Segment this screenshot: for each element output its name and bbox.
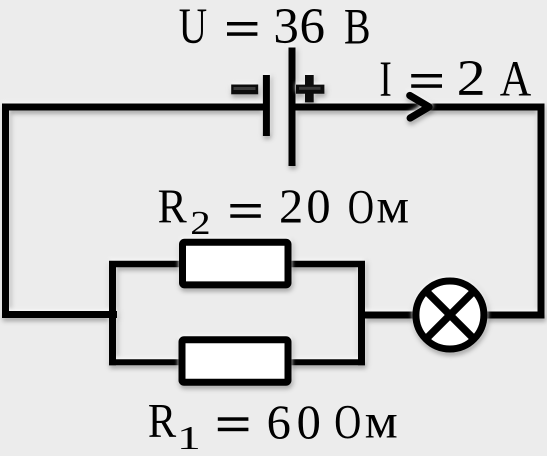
- svg-text:2: 2: [279, 180, 303, 233]
- svg-text:0: 0: [306, 181, 330, 234]
- svg-text:1: 1: [177, 418, 201, 456]
- svg-text:О: О: [334, 395, 361, 449]
- svg-text:О: О: [348, 181, 374, 234]
- svg-text:В: В: [344, 0, 371, 55]
- svg-text:U: U: [179, 0, 207, 54]
- svg-text:м: м: [365, 394, 398, 448]
- svg-text:2: 2: [457, 49, 486, 106]
- svg-text:6: 6: [267, 396, 291, 449]
- svg-text:I: I: [379, 50, 391, 107]
- svg-text:6: 6: [300, 0, 326, 55]
- svg-text:A: A: [500, 52, 531, 108]
- svg-text:3: 3: [273, 0, 299, 55]
- svg-text:R: R: [148, 393, 177, 447]
- svg-text:2: 2: [190, 205, 210, 242]
- svg-text:0: 0: [297, 396, 321, 449]
- svg-text:м: м: [376, 179, 409, 233]
- svg-text:R: R: [158, 179, 187, 233]
